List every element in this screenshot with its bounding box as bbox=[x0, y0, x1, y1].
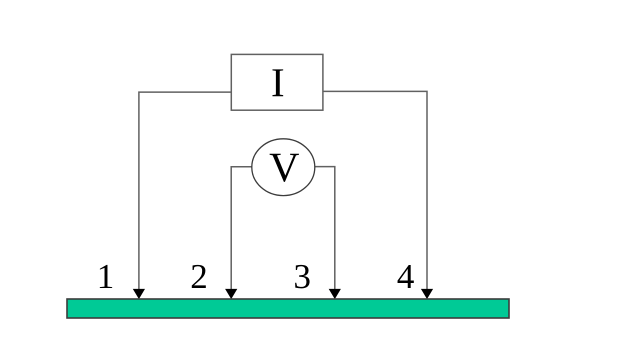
wire: voltmeter right lead to probe 3 bbox=[315, 167, 335, 290]
ammeter label I bbox=[272, 69, 283, 96]
contact label 2 bbox=[192, 265, 206, 288]
contact label 3 bbox=[295, 265, 309, 289]
voltmeter U2 circle bbox=[252, 139, 315, 196]
wire: voltmeter left lead to probe 2 bbox=[231, 167, 252, 290]
sample bar (green specimen) bbox=[67, 299, 509, 318]
probe 3 arrowhead bbox=[329, 289, 340, 298]
probe 4 arrowhead bbox=[422, 289, 433, 298]
wire: ammeter left lead to probe 1 bbox=[139, 92, 231, 290]
ammeter U1 box bbox=[231, 54, 323, 110]
contact label 1 bbox=[100, 265, 112, 288]
voltmeter label V bbox=[270, 154, 299, 182]
wire: ammeter right lead to probe 4 bbox=[323, 91, 427, 290]
probe 2 arrowhead bbox=[226, 289, 237, 298]
contact label 4 bbox=[398, 265, 414, 288]
probe 1 arrowhead bbox=[134, 289, 145, 298]
